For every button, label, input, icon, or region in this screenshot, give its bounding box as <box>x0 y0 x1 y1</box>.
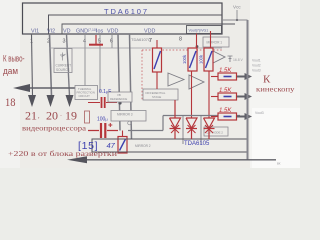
internal bottom rail <box>128 116 240 131</box>
svg-text:18: 18 <box>5 95 16 109</box>
svg-text:Vout3: Vout3 <box>252 69 261 73</box>
tiny node labels Vout1-3 <box>252 59 261 73</box>
output resistor R6 1.5K <box>211 88 237 100</box>
IC inner box edge <box>49 15 223 34</box>
svg-text:STAGE: STAGE <box>152 95 161 99</box>
svg-text:VDD: VDD <box>107 29 118 35</box>
svg-text:MIRROR 2: MIRROR 2 <box>135 144 151 148</box>
svg-text:видеопроцессора: видеопроцессора <box>22 125 87 133</box>
supply rail right vertical <box>247 20 249 160</box>
svg-text:Vout1: Vout1 <box>252 59 261 63</box>
svg-text:Vout(7)/VG1: Vout(7)/VG1 <box>189 29 209 33</box>
svg-text:TDA6107: TDA6107 <box>104 7 147 16</box>
VB reference box <box>108 92 132 102</box>
feedback resistor R1 <box>153 40 162 89</box>
svg-text:Ios: Ios <box>96 29 103 35</box>
svg-text:К выво-: К выво- <box>3 54 25 64</box>
output arrow 1 to CRT <box>237 73 252 80</box>
pin header band line <box>62 24 235 34</box>
svg-text:вх: вх <box>277 162 281 166</box>
svg-text:21: 21 <box>25 109 37 123</box>
svg-text:3: 3 <box>63 39 66 45</box>
junction dot <box>196 45 199 48</box>
Vout band box <box>187 26 222 34</box>
svg-text:8: 8 <box>179 37 182 43</box>
feedback resistor R2 <box>188 34 197 119</box>
op-amp U1c <box>211 50 225 64</box>
arrow to video processor pin 18 <box>13 84 30 92</box>
svg-text:VI1: VI1 <box>31 29 39 35</box>
svg-text:100k: 100k <box>182 54 187 64</box>
svg-text:19: 19 <box>65 109 77 123</box>
current source box <box>54 49 72 73</box>
protection diode VD2 <box>186 118 197 139</box>
wire to diodes vertical 1 <box>182 116 184 144</box>
svg-text:REFERENCE: REFERENCE <box>110 97 127 101</box>
svg-text:Vout2: Vout2 <box>252 64 261 68</box>
svg-text:VDD: VDD <box>144 29 155 35</box>
differential stage box <box>143 89 178 100</box>
output resistor R7 1.5K <box>211 108 237 120</box>
svg-text:MIRROR 3: MIRROR 3 <box>117 113 133 117</box>
svg-text:20: 20 <box>46 109 58 123</box>
internal supply rail <box>49 47 222 49</box>
decoder box <box>203 37 229 47</box>
small node circle under mirror box <box>128 121 132 125</box>
arrow to video processor pin 20 <box>47 95 55 107</box>
wire input 3 over box <box>67 49 69 73</box>
output arrow 3 to CRT <box>237 113 252 120</box>
svg-text:7: 7 <box>149 38 152 44</box>
+220V bottom line <box>86 159 276 161</box>
thermal protection circuit box <box>75 86 98 100</box>
junction dot on bus <box>118 101 121 104</box>
outer module box <box>23 3 223 34</box>
wire input 2 <box>50 34 52 96</box>
svg-text:TDA6107Q: TDA6107Q <box>131 37 151 42</box>
arrow to video processor pin 19 <box>66 95 74 107</box>
wire to diodes vertical 2 <box>200 116 202 144</box>
antenna tick <box>228 56 233 62</box>
svg-text:16.8 V: 16.8 V <box>233 58 244 62</box>
output arrow 2 to CRT <box>237 93 252 100</box>
red dashed net line <box>142 49 223 51</box>
svg-text:VD: VD <box>63 29 71 35</box>
mirror 3 box <box>111 111 146 122</box>
svg-text:TDA6105: TDA6105 <box>184 141 210 147</box>
svg-text:CIRCUIT: CIRCUIT <box>79 94 91 98</box>
junction dot <box>236 19 238 21</box>
wire input 3 <box>67 34 70 96</box>
svg-text:4: 4 <box>83 39 86 45</box>
svg-text:6: 6 <box>110 39 113 45</box>
resistor R4 47ohm <box>118 131 127 154</box>
svg-text:дам: дам <box>3 66 18 76</box>
wire pin6 <box>111 34 113 48</box>
wire pin4 <box>84 34 86 88</box>
bottom strip box <box>92 139 248 152</box>
svg-text:Vout3: Vout3 <box>255 111 264 115</box>
+220V arrow <box>67 156 87 163</box>
wire pin5 <box>99 34 101 92</box>
svg-text:MIRROR 1: MIRROR 1 <box>207 41 223 45</box>
svg-text:кинескопу: кинескопу <box>256 85 295 94</box>
svg-text:5: 5 <box>98 39 101 45</box>
annotation K vyvodam <box>3 54 25 77</box>
svg-text:100k: 100k <box>199 54 204 64</box>
protection diode VD3 <box>204 118 215 139</box>
svg-text:VI2: VI2 <box>47 29 55 35</box>
electrolytic capacitor C2 <box>88 123 118 138</box>
protection diode VD1 <box>170 100 181 139</box>
op-amp U1b <box>189 75 204 89</box>
wire bus vertical 2 <box>130 34 132 139</box>
capacitor C1 <box>88 97 117 108</box>
feedback resistor R3 <box>204 31 213 118</box>
svg-text:·: · <box>60 114 62 120</box>
wire bus vertical 1 <box>118 34 120 131</box>
arrow to video processor pin 21 <box>28 95 36 107</box>
output resistor R5 1.5K <box>211 68 237 80</box>
wire input 1 <box>32 34 33 96</box>
Vcc supply wire <box>222 10 248 20</box>
cathode drive 2 box <box>204 127 228 136</box>
wire feedback to pin 18 <box>30 87 85 89</box>
red ground tick on GND pin <box>89 35 103 45</box>
small sense resistor <box>85 111 90 123</box>
svg-text:+220 в от блока развертки: +220 в от блока развертки <box>8 149 117 158</box>
svg-text:Vcc: Vcc <box>233 5 241 10</box>
op-amp U1a <box>168 73 184 86</box>
